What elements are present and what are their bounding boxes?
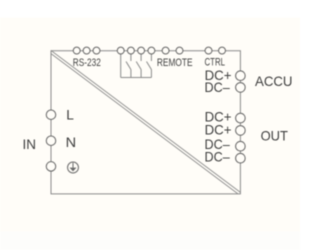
svg-text:DC+: DC+ [205,123,232,138]
svg-text:CTRL: CTRL [205,57,226,69]
OUT DC+ terminal 2 [236,126,246,136]
wire: device outline rectangle [51,51,240,194]
svg-text:RS-232: RS-232 [73,57,101,69]
ACCU DC+ terminal [236,71,246,81]
input terminal PE [46,162,56,172]
remote switch terminal 2 [127,47,134,54]
RS-232 terminal 1 [73,47,80,54]
RS-232 terminal 2 [83,47,90,54]
ground / PE symbol (circled down arrow) [68,162,79,173]
CTRL terminal 2 [219,47,226,54]
svg-text:DC–: DC– [205,80,231,95]
svg-text:REMOTE: REMOTE [157,57,193,69]
CTRL terminal 1 [205,47,212,54]
svg-text:N: N [66,135,77,150]
REMOTE terminal 1 [162,47,169,54]
svg-text:DC–: DC– [205,150,231,165]
REMOTE terminal 2 [176,47,183,54]
RS-232 terminal 3 [93,47,100,54]
remote switch terminal 3 [138,47,145,54]
svg-text:IN: IN [23,137,37,152]
ACCU DC- terminal [236,83,246,93]
svg-text:ACCU: ACCU [255,74,293,89]
svg-text:L: L [66,108,74,123]
input terminal L [46,110,56,120]
svg-text:OUT: OUT [261,129,289,144]
switch S2 [126,54,131,78]
switch S4 [147,54,152,78]
switch S3 [136,54,141,78]
wire: diagonal line 1 [51,51,240,193]
OUT DC- terminal 3 [236,141,246,151]
OUT DC+ terminal 1 [236,113,246,123]
switch S1 wire (common leg) [120,54,122,78]
wire: switch common bus [121,77,152,79]
input terminal N [46,136,56,146]
wire: diagonal line 2 [51,54,238,194]
remote switch terminal 1 [117,47,124,54]
OUT DC- terminal 4 [236,153,246,163]
remote switch terminal 4 [148,47,155,54]
